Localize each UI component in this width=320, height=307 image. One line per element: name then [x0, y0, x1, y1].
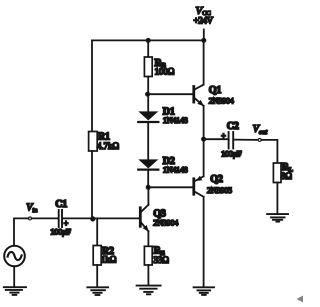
wire RB top stub	[147, 40, 149, 57]
source Vin sine generator	[4, 246, 25, 267]
resistor RE	[144, 246, 169, 265]
ground (source)	[4, 287, 26, 295]
wire R2 to ground	[96, 265, 98, 287]
wire Q3 collector to Q2 base node	[147, 187, 149, 205]
svg-text:33Ω: 33Ω	[154, 255, 170, 265]
wire RE to ground	[147, 265, 149, 285]
wire RB bottom to Q1 base node	[147, 77, 149, 95]
ground (Q2)	[194, 287, 214, 295]
svg-text:Q2: Q2	[210, 174, 223, 185]
wire input node to R2	[96, 218, 98, 245]
ground (RE)	[137, 286, 161, 295]
wire C2 to Vout terminal	[234, 139, 258, 141]
ground (R2)	[87, 287, 108, 295]
wire R1 bottom to input node	[91, 151, 93, 218]
svg-text:Q1: Q1	[209, 85, 222, 96]
svg-text:C2: C2	[227, 121, 239, 132]
diode D1	[138, 107, 187, 126]
svg-text:2N3904: 2N3904	[209, 97, 235, 106]
resistor RB	[144, 57, 174, 77]
wire Q1 emitter to output node	[203, 106, 205, 139]
wire top rail	[92, 39, 204, 41]
wire C1 to input node	[63, 217, 93, 219]
junction output node	[201, 137, 206, 142]
wire Q2 base	[148, 186, 193, 188]
wire output node to C2	[204, 138, 228, 140]
junction input node	[90, 216, 95, 221]
svg-text:4.7kΩ: 4.7kΩ	[97, 141, 119, 151]
junction top rail / Vcc	[201, 38, 206, 43]
resistor RL	[273, 162, 292, 182]
svg-text:C1: C1	[55, 199, 67, 210]
diode D2	[138, 156, 187, 175]
wire Vout to RL	[261, 140, 277, 163]
wire Q2 emitter to output node	[203, 139, 205, 176]
node Vcc	[194, 5, 214, 25]
wire node to D1	[147, 94, 149, 111]
svg-text:2N3905: 2N3905	[207, 186, 232, 195]
svg-text:Vout: Vout	[253, 124, 267, 136]
capacitor C1	[50, 199, 71, 237]
transistor Q1	[194, 85, 235, 107]
resistor R1	[89, 132, 120, 152]
wire Vin terminal to C1	[32, 217, 58, 219]
svg-text:2N3904: 2N3904	[153, 219, 179, 228]
ground (RL)	[267, 214, 288, 222]
wire Q1 collector to rail	[203, 40, 205, 84]
svg-text:+24V: +24V	[194, 15, 214, 25]
svg-text:1N4148: 1N4148	[163, 116, 188, 125]
capacitor C2	[221, 121, 242, 159]
wire input corner to Vin terminal	[14, 218, 28, 245]
junction Q2 base node	[146, 185, 151, 190]
wire D1 to D2	[147, 122, 149, 159]
svg-text:+: +	[221, 132, 226, 141]
junction Q1 base node	[145, 92, 150, 97]
wire Q3 emitter to RE	[147, 231, 149, 246]
transistor Q2	[194, 174, 232, 197]
wire left branch down to R1	[91, 40, 93, 131]
svg-text:100μF: 100μF	[50, 227, 71, 237]
cursor artifact bottom-right	[297, 296, 304, 303]
wire D2 to Q2 base node	[147, 170, 149, 188]
wire Q2 collector to ground	[203, 197, 205, 287]
transistor Q3	[140, 205, 179, 232]
wire input node to Q3 base	[93, 217, 140, 219]
wire source to ground	[13, 266, 15, 286]
wire Q1 base	[148, 93, 193, 95]
node Vout	[253, 124, 267, 141]
svg-text:Vin: Vin	[26, 203, 37, 215]
wire Vcc stub	[203, 30, 205, 41]
svg-text:1kΩ: 1kΩ	[101, 255, 117, 265]
svg-text:8Ω: 8Ω	[281, 171, 292, 181]
resistor R2	[93, 246, 117, 266]
svg-text:1N4148: 1N4148	[163, 165, 188, 174]
svg-text:100μF: 100μF	[221, 148, 242, 158]
svg-text:100Ω: 100Ω	[155, 67, 175, 77]
wire RL to ground	[276, 183, 278, 214]
junction top rail / RB	[146, 38, 151, 43]
node Vin	[26, 203, 37, 220]
